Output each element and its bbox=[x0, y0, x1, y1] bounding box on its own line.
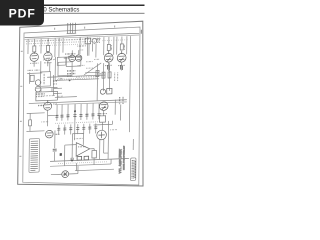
wire plate rail bbox=[47, 75, 105, 77]
label col right bbox=[120, 97, 123, 105]
label cluster left low bbox=[36, 93, 44, 95]
header thin rule bbox=[5, 13, 145, 14]
rectifier cluster right bbox=[100, 88, 112, 94]
label marks below V8 bbox=[100, 112, 108, 114]
title block text lines bbox=[132, 160, 135, 179]
connector pins top bbox=[67, 23, 77, 34]
border inner frame bbox=[23, 27, 140, 185]
label row under plate rail bbox=[57, 78, 97, 80]
svg-text:PDF: PDF bbox=[9, 7, 36, 21]
zone marks top margin bbox=[55, 26, 115, 30]
grid stopper marks V3 bbox=[108, 65, 110, 70]
wire right column bbox=[103, 66, 130, 133]
wire output tubes down bbox=[108, 62, 121, 71]
wire mid verticals bbox=[59, 37, 88, 57]
label row under comb bbox=[56, 122, 101, 124]
label small left pair bbox=[28, 69, 40, 71]
title block box bbox=[130, 158, 136, 181]
label right of R4 bbox=[123, 45, 125, 50]
grid stopper marks V4 bbox=[121, 65, 123, 70]
wire top bus bbox=[25, 33, 140, 37]
zone marks left margin bbox=[19, 51, 22, 156]
tube V9 bbox=[45, 130, 53, 138]
header thick rule bbox=[5, 5, 145, 7]
wire verticals upper-right bbox=[104, 36, 131, 67]
mid power bus bbox=[29, 100, 127, 104]
label above op-amp bbox=[74, 137, 82, 139]
label marks above driver bbox=[78, 45, 86, 47]
wire top bus 2 bbox=[25, 35, 140, 39]
wire left partial at bus bbox=[55, 96, 77, 99]
driver enclosure boxes bbox=[57, 57, 66, 65]
label marks right mid bbox=[97, 73, 105, 75]
wire left-mid verticals bbox=[49, 62, 62, 96]
label row mid-right bbox=[76, 75, 99, 78]
resistor R8 bbox=[30, 75, 34, 81]
bottom bus 2 bbox=[50, 164, 111, 166]
wire op-amp feedback bbox=[65, 133, 95, 161]
wire driver plate bbox=[72, 50, 79, 55]
label under V3 bbox=[105, 64, 112, 66]
capacitor C4 circles bbox=[35, 80, 41, 92]
label right of V7 bbox=[53, 103, 57, 105]
wire V7 down bbox=[47, 110, 55, 126]
tube V8 bbox=[99, 102, 108, 111]
second filter row verticals bbox=[59, 123, 96, 134]
label at op-amp bbox=[78, 146, 86, 148]
input connector block bbox=[85, 38, 91, 44]
wire op-amp input drop bbox=[71, 142, 73, 158]
tube V6 bbox=[75, 55, 81, 62]
wire verticals center-right bbox=[89, 43, 96, 57]
bias supply branch bbox=[54, 130, 56, 161]
label cluster mid dense bbox=[67, 70, 75, 72]
wire mains bbox=[51, 166, 78, 175]
tube V2 bbox=[44, 51, 53, 61]
resistor R4 bbox=[120, 44, 123, 50]
wire left mid bbox=[27, 61, 42, 84]
wire V1/V2 cathode bbox=[34, 61, 48, 67]
label above driver bbox=[65, 53, 75, 55]
label right of driver bbox=[78, 64, 86, 66]
wire mid horizontals bbox=[55, 55, 99, 80]
filter comb capacitors bbox=[57, 103, 99, 121]
resistor chain right: R5 R6 R7 bbox=[97, 63, 110, 100]
transformer T2 circle bbox=[97, 130, 107, 140]
label specks under T1 bbox=[57, 95, 63, 97]
coupling box left-mid bbox=[40, 72, 50, 87]
wire T2 down bbox=[100, 121, 109, 159]
label row 3 bbox=[40, 44, 96, 46]
label ticks in coupling box bbox=[43, 74, 45, 85]
label specks left low bbox=[42, 121, 49, 123]
label right of R3 bbox=[110, 45, 112, 50]
coupling box bbox=[58, 62, 72, 76]
wire drops to bottom bus bbox=[65, 149, 120, 166]
label right of V9 bbox=[55, 133, 60, 135]
feedback label row left-mid bbox=[43, 58, 55, 60]
wire bottom partial bus bbox=[75, 162, 114, 171]
resistor R11 bbox=[29, 120, 32, 126]
label col right of chain bbox=[115, 73, 118, 82]
border outer frame bbox=[18, 21, 143, 186]
label under V2 bbox=[44, 62, 52, 64]
label row 1 (component designators) bbox=[26, 39, 101, 42]
resistor R1 bbox=[33, 46, 36, 52]
label near J1 bbox=[97, 38, 99, 44]
resistor R12 bbox=[92, 150, 96, 158]
transformer T1 primary box bbox=[36, 91, 58, 101]
label specks right low bbox=[110, 129, 117, 131]
tube V1 bbox=[30, 52, 39, 62]
label under V4 bbox=[118, 64, 125, 66]
op-amp U1 (bias regulator) bbox=[76, 142, 90, 156]
label specks right-center bbox=[86, 61, 92, 63]
fuse F1 circle bbox=[62, 171, 69, 178]
label ticks on bottom bus bbox=[58, 162, 108, 164]
tube V4 (output) bbox=[117, 51, 126, 63]
label under V1 bbox=[30, 62, 38, 64]
scanned schematic page (slightly skewed) bbox=[19, 20, 141, 185]
bottom bus 1 bbox=[50, 158, 129, 161]
capacitor C2 box bbox=[100, 116, 106, 123]
bus component marks bbox=[71, 156, 89, 160]
wire diagonal phase splitter bbox=[84, 63, 101, 75]
jack J1 bbox=[92, 38, 97, 43]
wire center drop bbox=[74, 104, 76, 140]
node A junction dot bbox=[74, 110, 76, 112]
label row right section bbox=[103, 39, 129, 42]
label left of V7 bbox=[38, 104, 44, 106]
label small under box bbox=[59, 78, 64, 80]
tube V3 (output) bbox=[104, 51, 113, 63]
wire verticals upper-left bbox=[28, 38, 55, 58]
label marks right of box bbox=[53, 80, 58, 82]
svg-text:MODEL ST-150 POWER AMP: MODEL ST-150 POWER AMP bbox=[122, 145, 125, 170]
svg-text:50 Schematics: 50 Schematics bbox=[40, 7, 79, 13]
wire above title block bbox=[132, 139, 134, 150]
tube V5 bbox=[69, 55, 75, 62]
notes box bbox=[29, 139, 40, 173]
resistor R3 bbox=[107, 44, 110, 50]
revision tick top right bbox=[140, 30, 142, 34]
svg-text:VTL AMPLIFIER: VTL AMPLIFIER bbox=[118, 148, 122, 173]
resistor R2 bbox=[46, 45, 49, 51]
tube V7 bbox=[44, 100, 52, 110]
label in T1 bbox=[38, 94, 55, 97]
label row 2 bbox=[26, 41, 99, 44]
thermistor blob bbox=[60, 153, 62, 156]
wire mid-left horizontals bbox=[27, 113, 45, 120]
PDF badge bbox=[0, 0, 44, 26]
label under driver bbox=[64, 57, 70, 59]
